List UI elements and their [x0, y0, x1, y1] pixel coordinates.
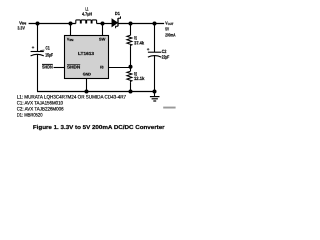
svg-text:D1: D1 [115, 11, 120, 16]
wire FB pin to FB node [109, 67, 131, 69]
svg-text:IN: IN [69, 38, 73, 42]
svg-text:C2: C2 [162, 49, 167, 54]
svg-text:5V: 5V [165, 27, 169, 32]
svg-text:C1: C1 [46, 45, 50, 50]
wire VIN pin drop [70, 24, 72, 36]
resistor R2 [127, 71, 132, 82]
svg-text:SW: SW [99, 37, 106, 42]
node junction VIN/C1 [36, 22, 40, 26]
svg-text:LT1613: LT1613 [78, 51, 95, 56]
svg-text:12.1k: 12.1k [134, 76, 145, 81]
svg-text:SHDN: SHDN [42, 65, 53, 70]
resistor R1 [127, 35, 132, 46]
capacitor C1 bottom lead [37, 54, 39, 91]
node VIN label [17, 20, 27, 30]
svg-text:22µF: 22µF [162, 54, 170, 59]
node junction FB [129, 65, 133, 69]
label figure tag [163, 107, 175, 109]
op-amp U1 LT1613 IC body [65, 36, 109, 79]
label + (C2 polarity) [147, 48, 149, 50]
node VOUT label [165, 21, 176, 38]
wire ground rail [37, 91, 155, 93]
node junction R1 top [129, 22, 133, 26]
wire R2 bottom to ground rail [130, 82, 132, 91]
svg-text:200mA: 200mA [165, 32, 176, 37]
label + (C1 polarity) [32, 46, 34, 48]
diode D1 (Schottky) [112, 19, 117, 26]
capacitor C2 [148, 52, 161, 57]
capacitor C1 [31, 52, 44, 56]
node SHDN label [42, 64, 53, 69]
wire R1 bottom to FB node [130, 46, 132, 67]
wire D1 cathode to VOUT [118, 23, 164, 25]
wire GND pin to rail [86, 79, 88, 92]
wire VIN to C1 junction (top rail) [29, 23, 76, 25]
wire SHDN to pin [54, 67, 64, 69]
svg-text:15µF: 15µF [45, 53, 53, 58]
capacitor C2 top lead [154, 24, 156, 53]
wire R2 top lead [130, 67, 132, 72]
svg-text:SHDN: SHDN [67, 65, 80, 70]
svg-text:FB: FB [100, 65, 104, 70]
node junction R2/rail [129, 90, 133, 94]
svg-text:GND: GND [83, 71, 91, 76]
capacitor C2 bottom lead [154, 56, 156, 92]
node junction C2 top [153, 22, 157, 26]
ground symbol [150, 92, 160, 102]
node junction GND/rail [85, 90, 89, 94]
svg-text:Figure 1. 3.3V to 5V 200mA DC/: Figure 1. 3.3V to 5V 200mA DC/DC Convert… [33, 124, 166, 131]
wire R1 top lead [130, 24, 132, 36]
svg-text:D1: MBR0520: D1: MBR0520 [17, 113, 43, 119]
svg-text:3.3V: 3.3V [17, 26, 25, 31]
svg-text:OUT: OUT [168, 22, 174, 26]
wire L1 to D1 anode [97, 23, 113, 25]
node junction C2/rail [153, 90, 157, 94]
capacitor C1 top lead [37, 24, 39, 52]
label C1 leader [40, 49, 44, 52]
svg-text:37.4k: 37.4k [134, 41, 144, 46]
node junction VIN pin [69, 22, 73, 26]
node junction SW pin [101, 22, 105, 26]
inductor L1 [76, 20, 97, 24]
svg-text:4.7µH: 4.7µH [82, 11, 93, 16]
wire SW pin drop [102, 24, 104, 36]
